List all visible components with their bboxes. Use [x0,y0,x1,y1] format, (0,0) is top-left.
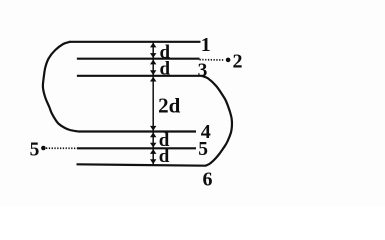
terminal dot 2 [226,58,231,63]
dotted terminal lead of plate 2 [200,59,225,61]
right fold connecting plate 3 to plate 6 [202,76,232,166]
plate 5 [77,147,196,149]
svg-text:2: 2 [233,51,243,73]
plate 6 [77,164,207,165]
arrowhead up at plate 4 (from below) [150,132,156,137]
plate 1 [69,41,201,43]
plate 3 [77,75,203,77]
dotted terminal lead of plate 5 [46,147,77,149]
svg-text:5: 5 [198,139,208,160]
svg-text:5: 5 [30,140,40,161]
arrowhead down at plate 4 (from above) [150,126,156,131]
svg-text:3: 3 [198,60,208,81]
svg-text:d: d [160,59,171,80]
arrowhead up at plate 1 [150,43,156,48]
svg-text:d: d [159,146,170,167]
svg-text:2d: 2d [158,94,181,118]
left fold connecting plate 1 to plate 4 [43,42,78,132]
svg-text:6: 6 [203,168,213,190]
arrowhead down at plate 6 [150,159,156,164]
svg-text:1: 1 [201,34,211,56]
arrowhead down at plate 3 (from above) [150,70,156,75]
terminal dot 5 [41,146,46,151]
arrowhead down at plate 5 (from above) [150,143,156,148]
arrowhead up at plate 5 (from below) [150,149,156,154]
plate 4 [78,130,196,132]
arrowhead down at plate 2 (from above) [150,53,156,58]
arrowhead up at plate 3 (from below) [150,77,156,82]
plate 2 [77,58,200,60]
arrowhead up at plate 2 (from below) [150,60,156,65]
dimension line shaft [152,43,154,165]
